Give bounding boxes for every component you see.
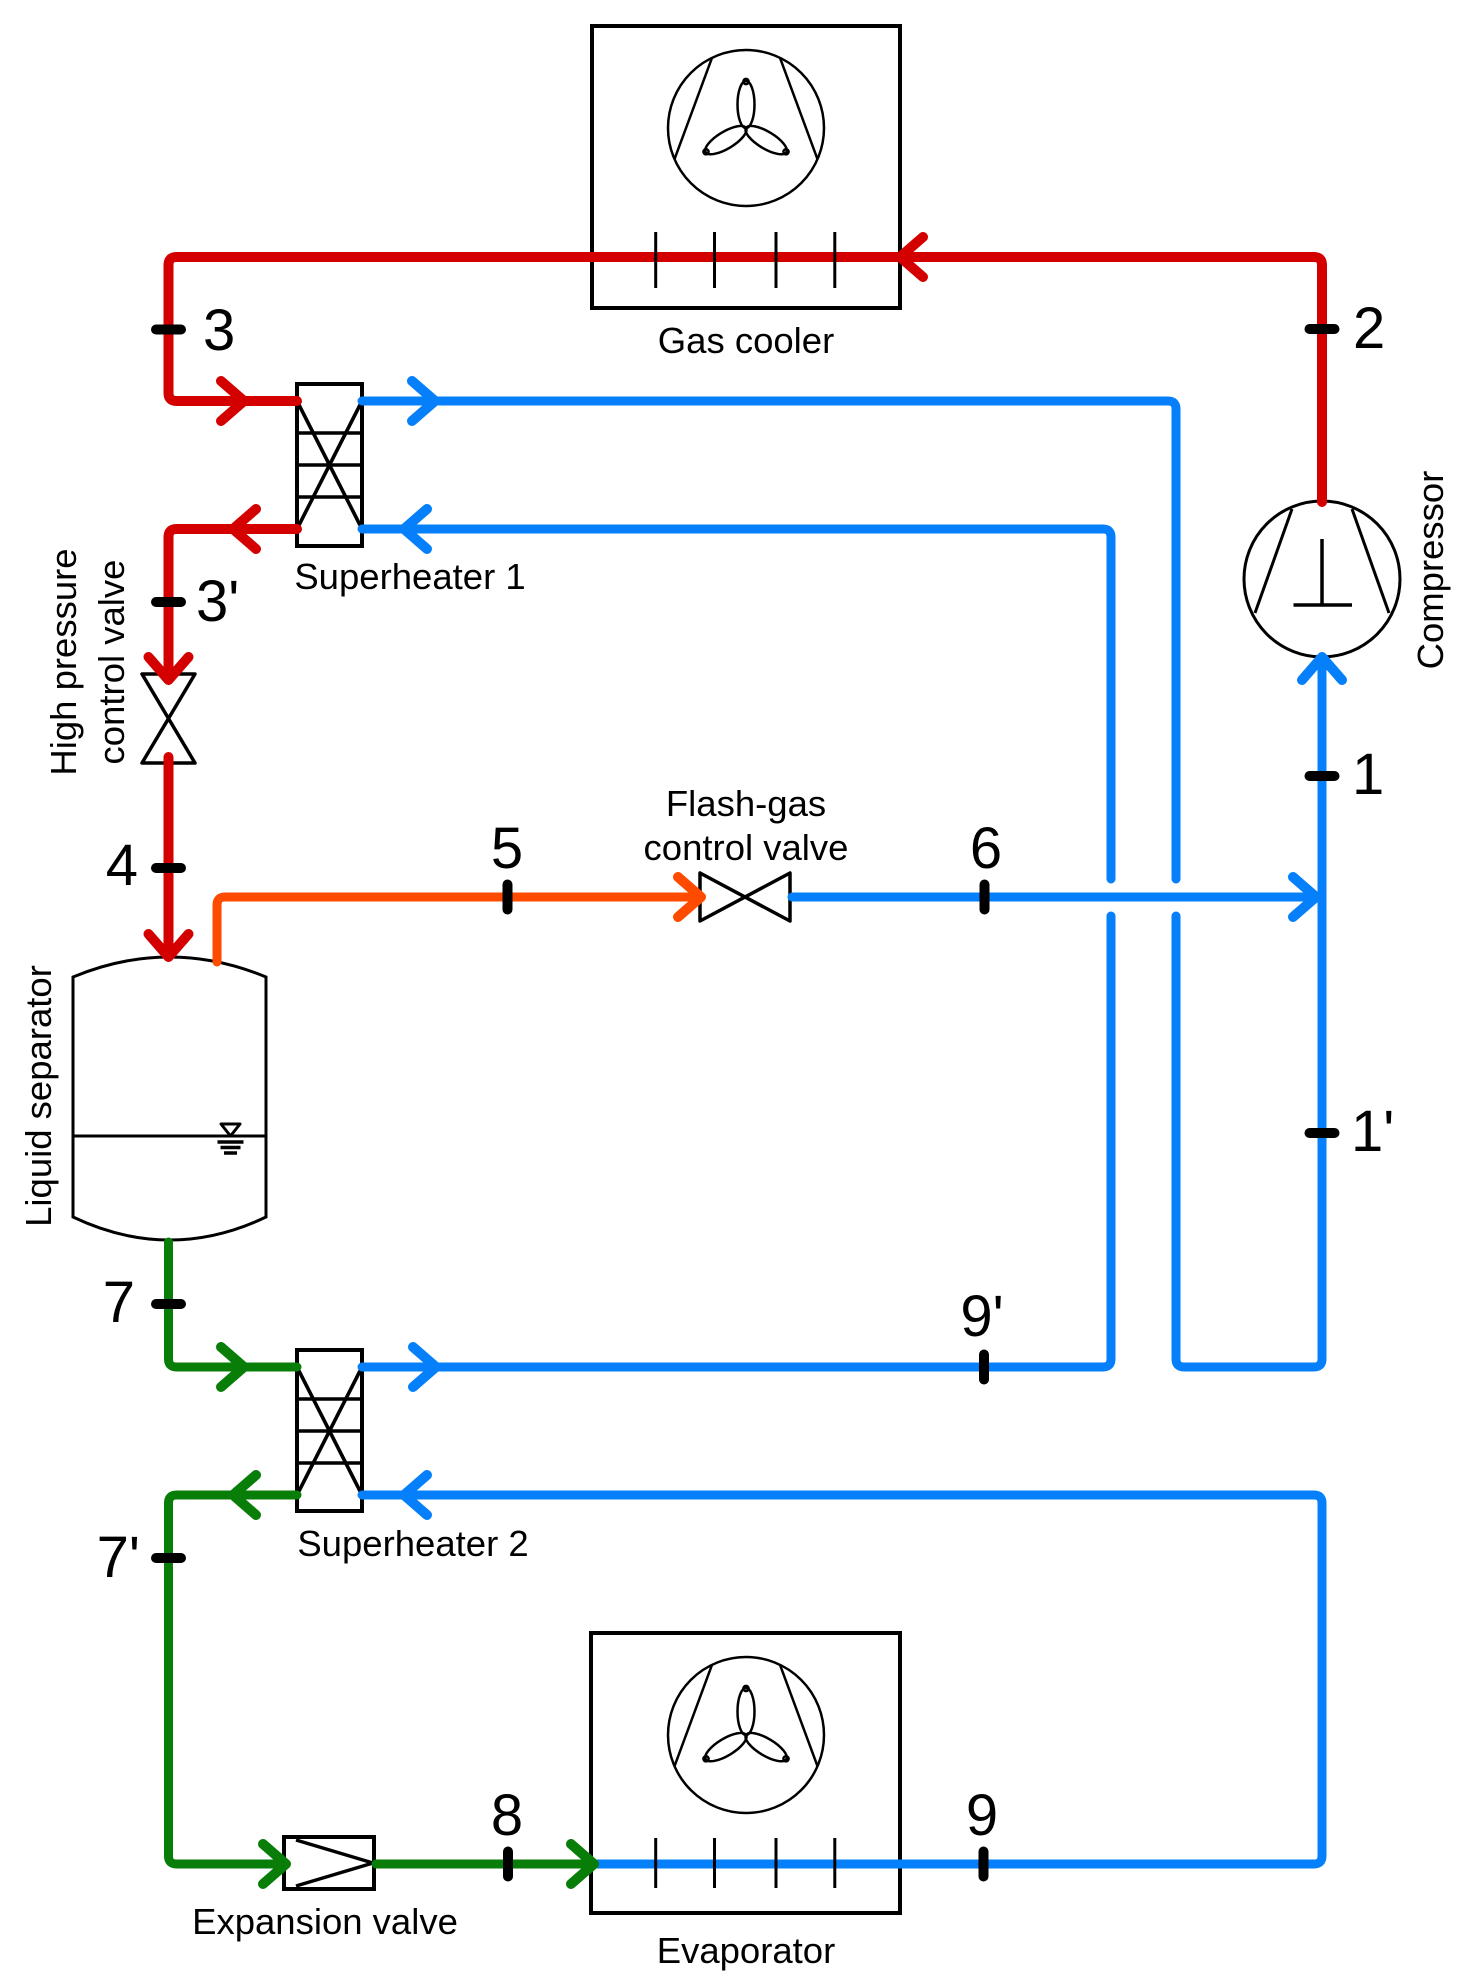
wire blue evaporator outlet to superheater 2 — [362, 1495, 1322, 1864]
wire red superheater 1 outlet to high pressure valve — [169, 529, 298, 671]
svg-text:Gas cooler: Gas cooler — [658, 320, 835, 361]
evaporator fins — [656, 1838, 835, 1888]
svg-text:Superheater 1: Superheater 1 — [294, 556, 525, 597]
evaporator fan — [668, 1657, 824, 1813]
arrow red into superheater 1 top — [221, 381, 244, 421]
svg-text:5: 5 — [491, 816, 523, 881]
svg-text:4: 4 — [106, 833, 138, 898]
svg-text:6: 6 — [970, 816, 1002, 881]
node 9 tick — [979, 1852, 989, 1877]
expansion valve — [284, 1837, 374, 1889]
flash-gas control valve — [700, 873, 790, 921]
superheater 1 heat exchanger — [297, 384, 362, 546]
arrow green into superheater 2 top — [221, 1347, 244, 1387]
arrow blue into superheater 2 bottom — [404, 1475, 427, 1515]
arrow green into expansion valve — [263, 1844, 286, 1884]
superheater 2 heat exchanger — [297, 1350, 362, 1511]
node 7 tick — [156, 1299, 181, 1309]
svg-text:control valve: control valve — [91, 560, 132, 765]
compressor U1 — [1244, 501, 1400, 657]
wire blue superheater 1 top outlet going right and down — [362, 401, 1176, 879]
gas cooler box — [592, 26, 900, 308]
wire blue flash gas line — [792, 893, 1316, 902]
svg-text:Flash-gas: Flash-gas — [666, 783, 826, 824]
svg-text:2: 2 — [1353, 296, 1385, 361]
svg-text:9: 9 — [966, 1783, 998, 1848]
svg-text:Expansion valve: Expansion valve — [192, 1901, 458, 1942]
arrow blue flash gas joining suction rail — [1293, 877, 1316, 917]
wire blue down right rail to compressor suction — [1176, 657, 1322, 1367]
arrow blue into superheater 1 bottom — [404, 509, 427, 549]
node 1' tick — [1310, 1128, 1335, 1138]
svg-text:3: 3 — [203, 298, 235, 363]
wire red discharge line compressor to gas cooler to superheater 1 — [169, 257, 1323, 502]
node 9' tick — [979, 1355, 989, 1380]
svg-text:8: 8 — [491, 1783, 523, 1848]
node 3' tick — [156, 597, 181, 607]
svg-text:1': 1' — [1351, 1099, 1394, 1164]
svg-text:1: 1 — [1352, 742, 1384, 807]
wire orange separator to flash-gas valve — [217, 897, 695, 962]
arrow green out of superheater 2 bottom — [233, 1475, 256, 1515]
svg-text:High pressure: High pressure — [43, 548, 84, 775]
liquid separator tank — [73, 957, 266, 1240]
wire blue superheater 2 outlet to rail — [362, 916, 1111, 1367]
node 8 tick — [503, 1852, 513, 1877]
wire green expansion valve to evaporator — [376, 1860, 592, 1869]
node 6 tick — [980, 885, 990, 910]
arrow red into gas cooler — [900, 237, 923, 277]
evaporator box — [591, 1633, 900, 1913]
gas cooler fan — [668, 50, 824, 206]
svg-text:Liquid separator: Liquid separator — [18, 965, 59, 1227]
gas cooler fins — [656, 232, 835, 288]
node 4 tick — [156, 863, 181, 873]
node 2 tick — [1310, 324, 1335, 334]
wire blue rail into superheater 1 bottom — [362, 529, 1111, 879]
svg-text:7': 7' — [97, 1525, 140, 1590]
arrow blue out of superheater 2 top — [413, 1347, 436, 1387]
wire red valve to liquid separator — [164, 757, 174, 954]
node 7' tick — [156, 1553, 181, 1563]
arrow green into evaporator — [571, 1844, 594, 1884]
svg-text:Evaporator: Evaporator — [657, 1930, 836, 1971]
node 3 tick — [156, 325, 181, 335]
node 1 tick — [1310, 771, 1335, 781]
node 5 tick — [503, 885, 513, 910]
svg-text:Superheater 2: Superheater 2 — [297, 1523, 528, 1564]
svg-text:7: 7 — [103, 1270, 135, 1335]
wire green superheater 2 to expansion valve — [169, 1495, 298, 1864]
svg-text:9': 9' — [960, 1284, 1003, 1349]
high pressure control valve — [142, 674, 195, 763]
arrow red into separator — [149, 934, 189, 957]
arrow blue into compressor — [1302, 657, 1342, 680]
arrow blue out of superheater 1 top — [412, 381, 435, 421]
svg-text:3': 3' — [196, 569, 239, 634]
svg-text:Compressor: Compressor — [1410, 471, 1451, 670]
arrow orange into flash-gas valve — [678, 877, 701, 917]
arrow red into high pressure valve — [149, 657, 189, 680]
arrow red out of superheater 1 bottom — [233, 509, 256, 549]
wire green separator to superheater 2 — [169, 1242, 298, 1367]
svg-text:control valve: control valve — [644, 827, 849, 868]
